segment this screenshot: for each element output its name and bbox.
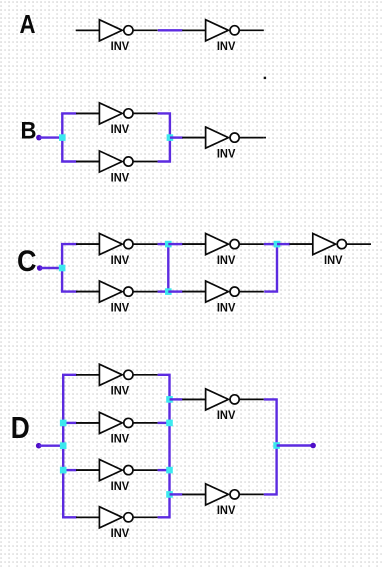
wire	[168, 290, 182, 292]
inverter D6	[182, 484, 264, 517]
inverter C5	[289, 234, 371, 267]
wire	[182, 398, 205, 400]
wire	[77, 374, 100, 376]
wire	[277, 243, 290, 245]
wire	[158, 290, 169, 292]
wire	[63, 375, 76, 518]
inverter C3	[182, 234, 264, 267]
junction	[167, 134, 174, 141]
inverter D1	[76, 364, 158, 397]
svg-text:A: A	[20, 11, 36, 39]
inverter A2	[182, 20, 264, 53]
junction	[60, 467, 67, 474]
wire	[182, 29, 205, 31]
junction	[59, 265, 66, 272]
wire	[77, 422, 100, 424]
wire	[264, 243, 277, 245]
wire	[183, 137, 206, 139]
wire	[277, 444, 312, 446]
inverter B2	[76, 151, 158, 184]
inverter D2	[76, 412, 158, 445]
junction	[166, 396, 173, 403]
wire	[40, 267, 62, 269]
wire	[62, 113, 76, 161]
wire	[77, 291, 99, 293]
wire	[168, 243, 182, 245]
inverter C4	[182, 281, 264, 314]
wire	[183, 291, 206, 293]
wire	[290, 243, 313, 245]
wire	[158, 375, 170, 518]
wire	[76, 161, 99, 163]
wire	[264, 244, 277, 292]
wire	[158, 113, 170, 161]
wire	[158, 422, 170, 424]
node dot	[264, 77, 266, 79]
wire	[77, 469, 100, 471]
wire	[264, 137, 266, 139]
wire	[167, 244, 169, 292]
wire	[170, 398, 183, 400]
wire	[158, 469, 170, 471]
junction	[165, 241, 172, 248]
inverter D3	[76, 460, 158, 493]
wire	[170, 136, 183, 138]
wire	[63, 422, 76, 424]
junction	[166, 467, 173, 474]
junction	[59, 134, 66, 141]
wire	[170, 493, 183, 495]
wire	[39, 136, 62, 138]
wire	[183, 243, 206, 245]
wire	[77, 516, 100, 518]
inverter C1	[76, 234, 158, 267]
junction	[166, 420, 173, 427]
input terminal D	[36, 443, 42, 449]
wire	[76, 112, 99, 114]
wire	[158, 243, 169, 245]
wire	[77, 243, 99, 245]
wire	[62, 244, 77, 292]
junction	[274, 241, 281, 248]
junction	[166, 491, 173, 498]
output terminal D	[310, 443, 316, 449]
inverter D5	[182, 389, 264, 422]
junction	[165, 288, 172, 295]
svg-text:B: B	[21, 118, 37, 145]
inverter D4	[76, 507, 158, 540]
wire	[76, 29, 100, 31]
wire	[264, 399, 277, 494]
wire	[158, 29, 183, 31]
junction	[60, 420, 67, 427]
inverter A1	[76, 20, 158, 53]
wire	[63, 469, 76, 471]
inverter B1	[76, 103, 158, 136]
input terminal B	[36, 135, 42, 141]
svg-text:D: D	[11, 410, 30, 445]
inverter B3	[182, 127, 264, 160]
wire	[39, 445, 63, 447]
junction	[60, 442, 67, 449]
junction	[273, 442, 280, 449]
svg-text:C: C	[17, 245, 37, 278]
wire	[182, 493, 205, 495]
input terminal C	[37, 265, 43, 271]
inverter C2	[76, 281, 158, 314]
